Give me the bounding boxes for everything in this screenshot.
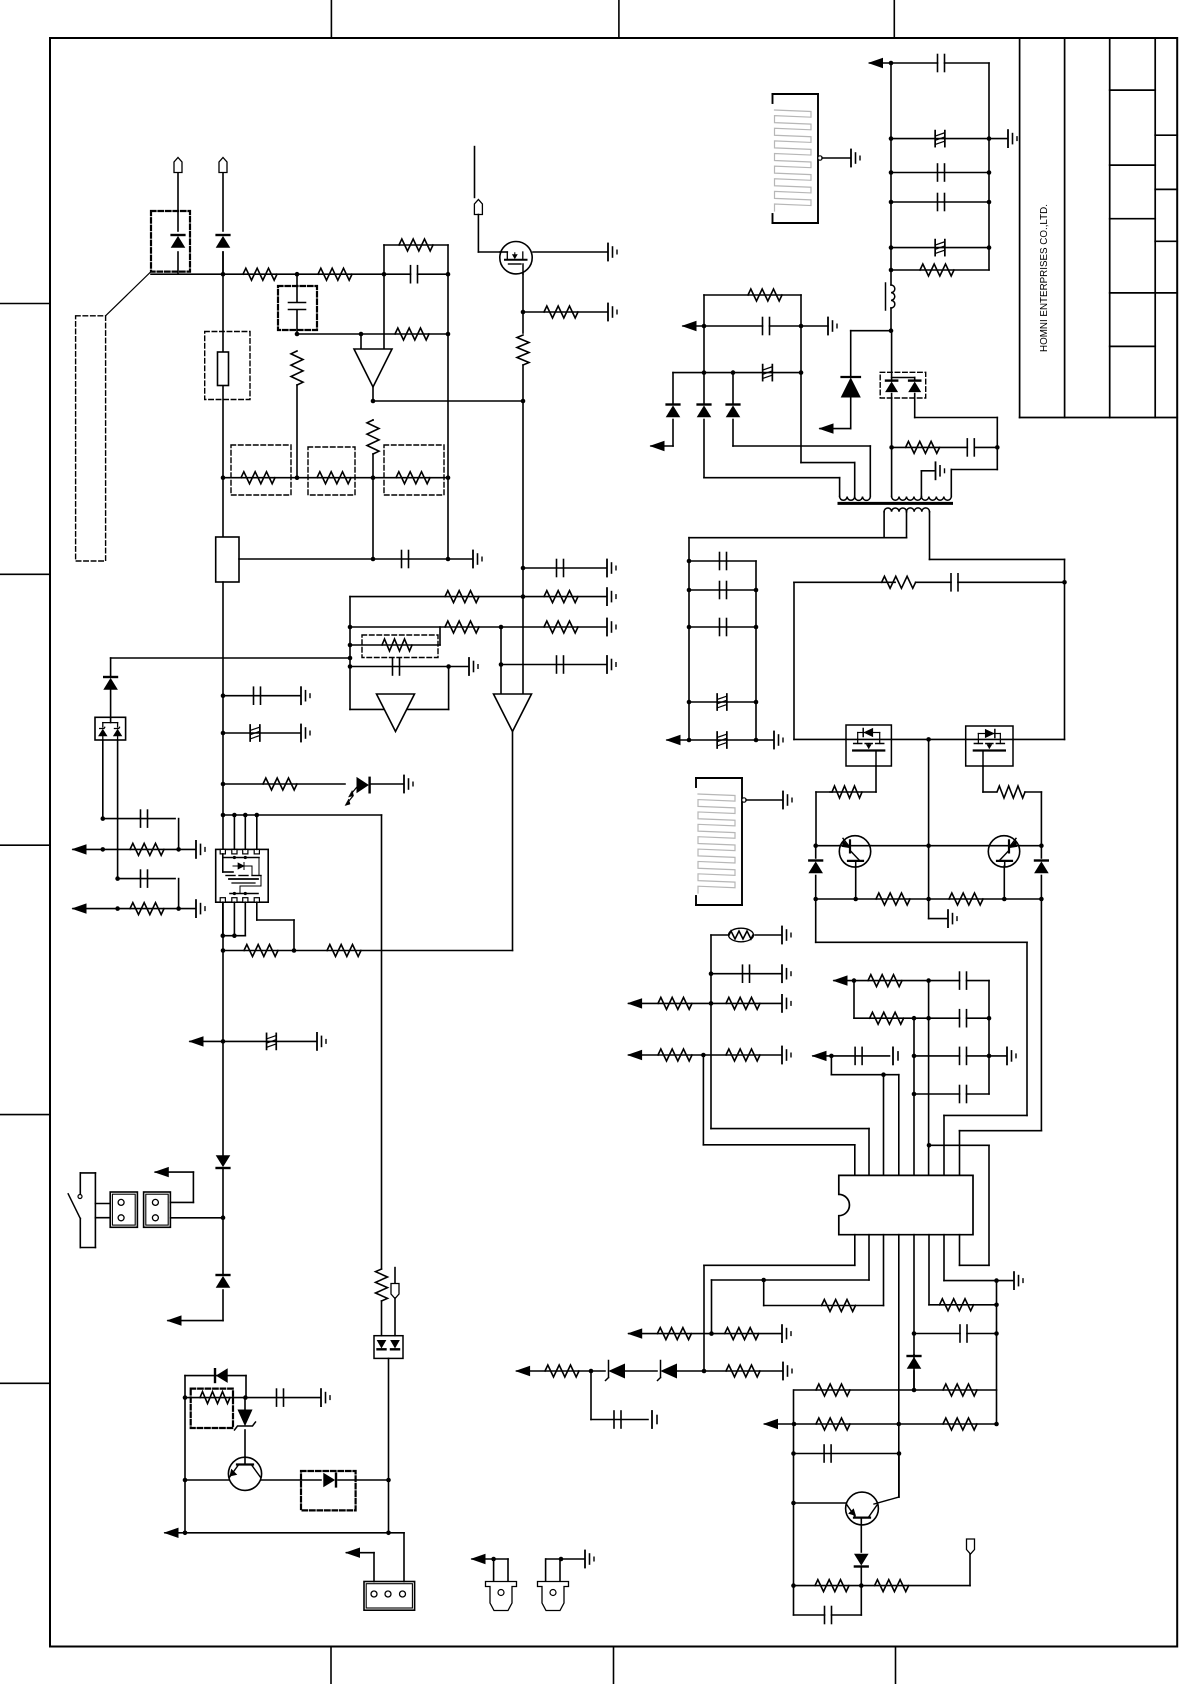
svg-text:HOMNI ENTERPRISES CO.,LTD.: HOMNI ENTERPRISES CO.,LTD. <box>1039 204 1050 352</box>
